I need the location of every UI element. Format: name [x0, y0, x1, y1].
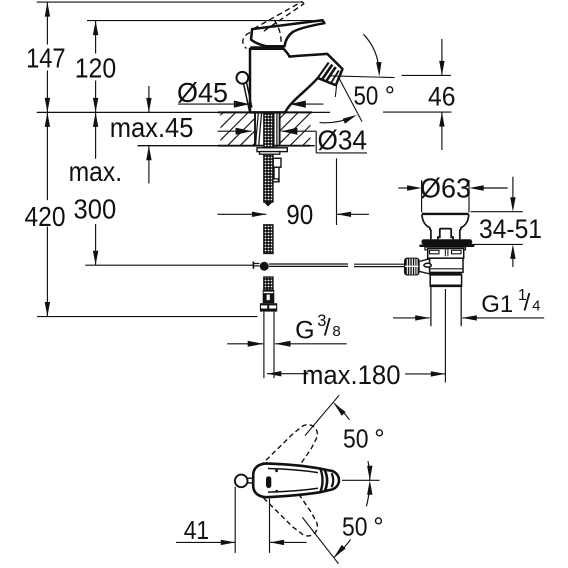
label G3/8	[227, 312, 347, 347]
drain upper body	[428, 249, 464, 259]
svg-text:41: 41	[184, 517, 209, 545]
drain flange cup	[422, 214, 469, 240]
faucet body and spout	[250, 49, 343, 113]
clamp bracket	[419, 259, 430, 274]
svg-text:°: °	[373, 512, 383, 542]
locknut under washer	[260, 152, 280, 155]
svg-text:G1: G1	[481, 291, 513, 318]
drain white disc	[425, 247, 466, 250]
drain flange extension lines	[422, 180, 469, 212]
drain lower body	[430, 275, 462, 286]
pop-up knob on faucet	[237, 72, 252, 111]
svg-text:°: °	[385, 83, 395, 111]
lower 50 degree arc arrows	[334, 480, 384, 557]
drain plug knob	[438, 229, 453, 240]
svg-text:147: 147	[26, 42, 66, 73]
svg-text:max.45: max.45	[110, 112, 194, 143]
drain clamp section	[430, 258, 464, 272]
pop-up rod adjuster blocks	[273, 158, 281, 182]
svg-text:/: /	[524, 289, 531, 316]
svg-text:90: 90	[286, 199, 313, 230]
dimension 41	[176, 487, 307, 553]
deck hole right edge	[279, 112, 281, 145]
aerator rings	[318, 63, 339, 85]
svg-text:420: 420	[25, 201, 66, 232]
handle tip bands	[320, 469, 333, 493]
deck level reference line right (46 lower ref)	[383, 111, 452, 113]
pop-up rod ball joint	[260, 262, 269, 271]
deck hatch left block	[178, 112, 286, 145]
svg-text:Ø63: Ø63	[420, 173, 471, 204]
G3/8 threaded connector	[263, 290, 275, 303]
deck top line	[37, 111, 330, 113]
supply hose braided segment 3	[264, 277, 273, 290]
dimension max.180	[267, 360, 445, 390]
horizontal reference line at handle tip	[342, 479, 380, 481]
dimension 147	[26, 2, 66, 112]
svg-text:120: 120	[75, 53, 117, 84]
dimension 120	[75, 21, 117, 113]
cartridge dome joint bar	[250, 46, 283, 49]
dimension 420	[25, 112, 66, 316]
second hose curved lines in deck	[256, 113, 262, 146]
label diameter 34 with leader	[218, 125, 368, 156]
horizontal pop-up rod to drain	[269, 264, 405, 267]
handle inner chamfer lines	[268, 469, 318, 493]
supply hose braided segment in deck and below	[264, 113, 273, 207]
upper 50 degree arc arrows	[334, 403, 385, 480]
G3/8 nut	[260, 303, 277, 311]
svg-text:50: 50	[354, 83, 379, 111]
50 degree swing legs	[302, 395, 339, 564]
dimension 46	[402, 39, 456, 150]
svg-text:/: /	[324, 314, 331, 341]
50 degree spray angle annotation (top)	[320, 34, 395, 124]
svg-text:max.180: max.180	[302, 360, 401, 390]
svg-text:Ø45: Ø45	[177, 77, 228, 108]
drain basin washer (black)	[419, 239, 474, 247]
drain center line	[444, 289, 446, 383]
svg-text:8: 8	[332, 323, 340, 340]
deck hatch right block	[240, 112, 336, 145]
svg-text:4: 4	[532, 297, 540, 314]
pop-up rod in deck	[274, 113, 277, 152]
drain tailpipe	[431, 287, 461, 326]
handle plan view (solid)	[253, 463, 339, 497]
G3/8 extension lines	[264, 312, 274, 379]
reference line: max.300 end / pop-up rod level	[85, 264, 253, 266]
clamp pivot	[424, 263, 431, 267]
svg-text:Ø34: Ø34	[318, 125, 368, 156]
reference line: 420 end (bottom of supply hose)	[37, 316, 257, 318]
dimension 90	[218, 158, 369, 230]
svg-text:34-51: 34-51	[479, 214, 542, 244]
lever (solid, horizontal)	[251, 20, 324, 46]
svg-text:°: °	[374, 424, 384, 454]
lever raised position (dashed)	[243, 2, 304, 49]
dimension max.45 (deck thickness)	[110, 86, 194, 183]
pop-up knob plan view	[235, 475, 253, 488]
pop-up rod end cap	[253, 261, 259, 268]
label G1 1/4	[393, 287, 544, 320]
svg-text:max.: max.	[69, 156, 123, 187]
deck hole left edge	[254, 112, 256, 145]
label diameter 63	[398, 173, 507, 204]
extension line: handle-top level (147 ref)	[37, 1, 301, 3]
handle plan view: dashed rotated positions	[254, 416, 327, 545]
locknut washer under deck	[257, 148, 287, 152]
handle dots	[275, 469, 278, 492]
supply hose braided segment 2	[264, 225, 273, 254]
svg-text:300: 300	[74, 194, 117, 225]
label diameter 45 with leader	[177, 77, 323, 108]
handle cartridge slot	[266, 476, 271, 488]
drain clamp bottom bar	[429, 272, 461, 275]
deck bottom line	[138, 145, 315, 147]
extension line: lever level (120 ref)	[87, 20, 323, 22]
svg-text:46: 46	[428, 81, 456, 111]
aerator face line extension	[335, 85, 336, 97]
dimension max.300	[69, 112, 123, 265]
svg-text:50: 50	[343, 424, 369, 454]
svg-text:G: G	[295, 317, 314, 345]
svg-text:50: 50	[342, 512, 368, 542]
dimension 34-51	[470, 177, 543, 267]
clamp knurled knob	[405, 258, 419, 275]
